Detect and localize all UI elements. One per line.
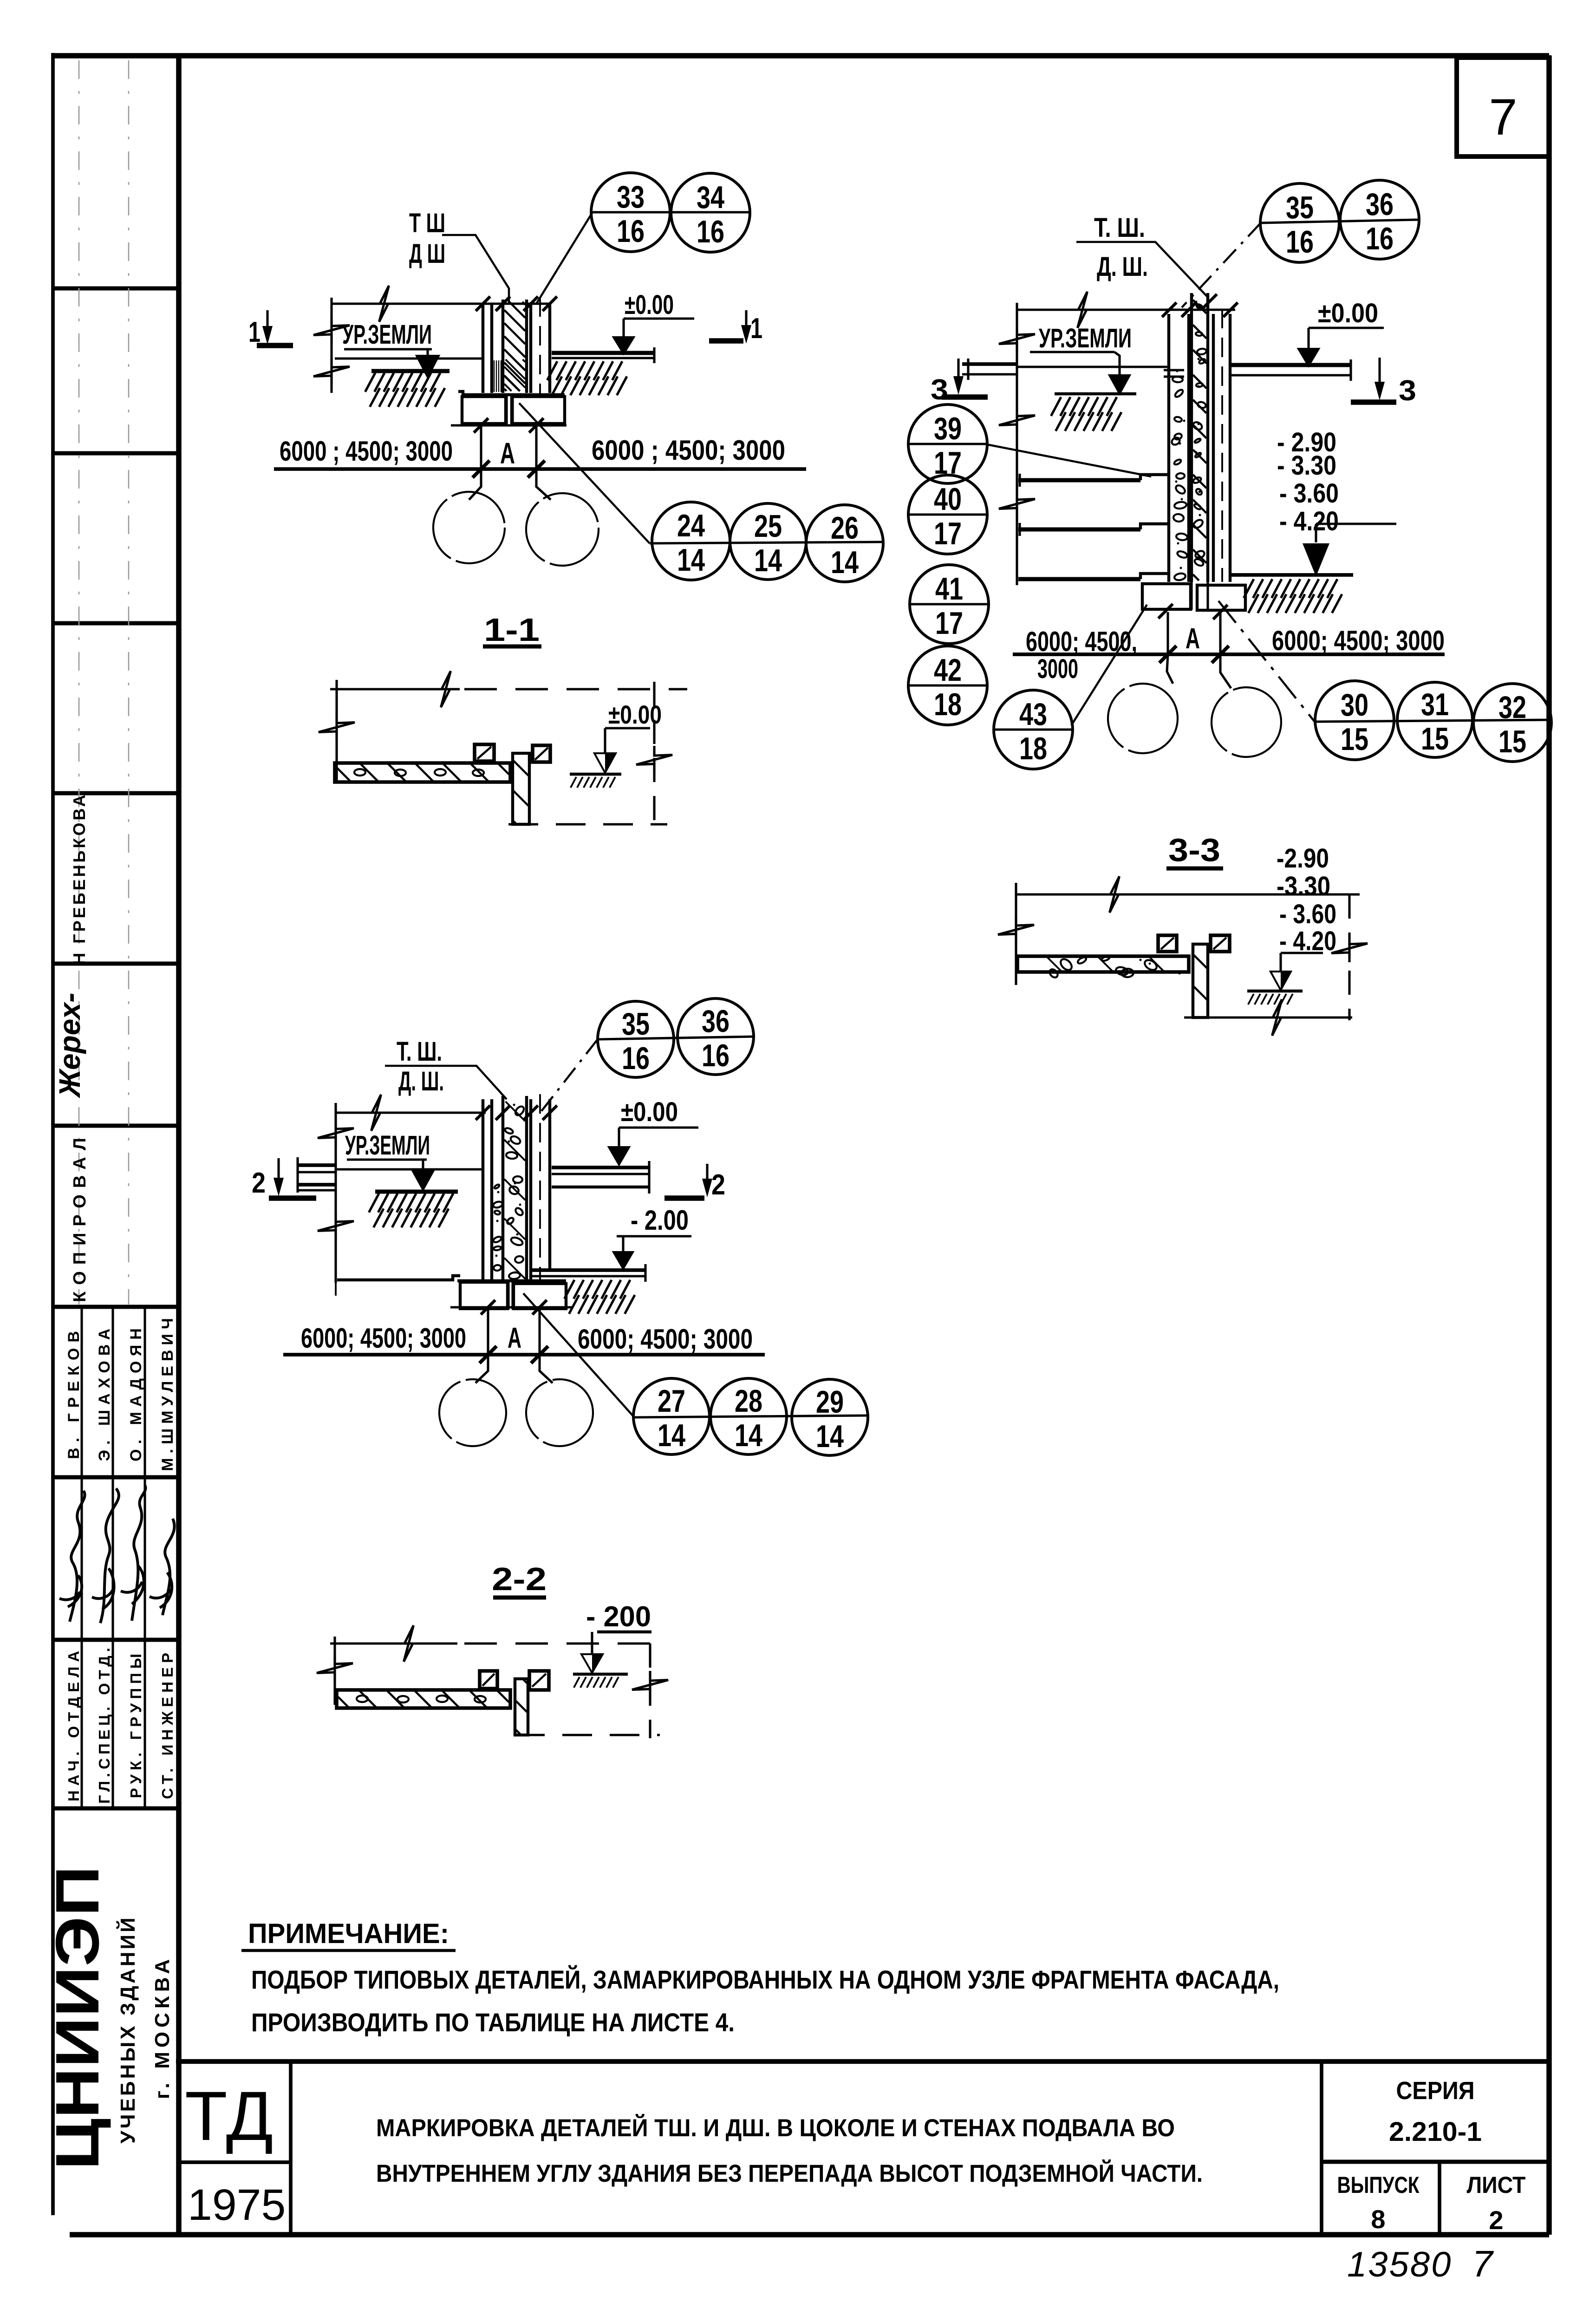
detail circle 35/16 (B): [1260, 183, 1339, 262]
svg-text:О. МАДОЯН: О. МАДОЯН: [127, 1323, 145, 1461]
svg-text:УР.ЗЕМЛИ: УР.ЗЕМЛИ: [1039, 323, 1132, 353]
svg-text:СЕРИЯ: СЕРИЯ: [1396, 2077, 1475, 2105]
svg-text:42: 42: [934, 652, 962, 688]
detail C: left extent line: [334, 1103, 337, 1283]
stamp column divider 2: [53, 451, 179, 456]
detail circle 42/18: [909, 684, 988, 686]
svg-text:14: 14: [677, 542, 705, 578]
svg-text:г. МОСКВА: г. МОСКВА: [151, 1955, 174, 2099]
svg-text:35: 35: [622, 1006, 650, 1042]
svg-text:ЛИСТ: ЛИСТ: [1467, 2172, 1526, 2198]
svg-text:6000; 4500; 3000: 6000; 4500; 3000: [578, 1324, 753, 1355]
stamp column divider 8: [53, 1475, 179, 1480]
detail B: axis circle empty 2: [1212, 687, 1281, 757]
svg-text:- 4.20: - 4.20: [1279, 506, 1339, 536]
detail circle 31/15: [1397, 682, 1472, 757]
detail B: leader from circle 39: [987, 444, 1151, 476]
detail A: left extent line: [330, 298, 332, 393]
detail C: footing top ledge: [457, 1279, 566, 1282]
stamp column outer left line: [51, 53, 55, 2215]
series cell divider: [1320, 2061, 1323, 2235]
detail A: hooks to axis circles: [469, 469, 481, 500]
detail C: footing block right: [514, 1284, 566, 1309]
svg-text:3000: 3000: [1037, 654, 1078, 684]
detail circle 26/14: [806, 505, 883, 582]
svg-text:3-3: 3-3: [1168, 832, 1220, 868]
svg-text:16: 16: [617, 214, 645, 249]
stamp column divider 7: [53, 1305, 179, 1309]
svg-text:16: 16: [622, 1041, 650, 1076]
detail circle 34/16: [671, 173, 750, 252]
svg-text:6000; 4500; 3000: 6000; 4500; 3000: [301, 1323, 466, 1354]
detail C: axis dimension line: [283, 1353, 765, 1357]
svg-text:ГЛ.СПЕЦ. ОТД.: ГЛ.СПЕЦ. ОТД.: [96, 1644, 113, 1804]
svg-text:Т. Ш.: Т. Ш.: [397, 1037, 442, 1067]
detail C: bottom floor line left: [337, 1276, 460, 1280]
detail A: ticks on top dim line: [476, 296, 490, 311]
detail A: footing block right: [512, 397, 565, 424]
detail C: soil hatch under basement slab: [564, 1280, 574, 1299]
detail C: footing block left: [460, 1282, 508, 1309]
detail C: divider line through circles 27-29: [634, 1415, 868, 1417]
svg-text:- 200: - 200: [586, 1601, 651, 1633]
svg-text:35: 35: [1286, 190, 1314, 225]
svg-text:6000; 4500,: 6000; 4500,: [1026, 626, 1137, 657]
detail circle 28/14: [710, 1378, 787, 1455]
detail circle 43/18: [994, 728, 1073, 731]
detail B: lower ground line right: [1231, 573, 1353, 577]
detail circle 24/14: [652, 502, 730, 580]
section 2-2: joint insert left: [480, 1671, 497, 1689]
stamp column divider 1: [53, 287, 179, 291]
svg-text:24: 24: [677, 508, 705, 543]
stamp sub-column dividers: [80, 1307, 83, 1808]
border frame bottom line: [70, 2232, 1549, 2237]
detail B: left extent line: [1016, 303, 1018, 585]
detail B: expansion joint panel hatched: [1190, 293, 1193, 582]
detail A: footing top ledge: [458, 391, 565, 395]
detail C: section mark 2 right: [664, 1195, 704, 1201]
detail C: ground line left: [336, 1168, 483, 1170]
svg-text:14: 14: [831, 545, 859, 580]
svg-text:15: 15: [1421, 721, 1449, 757]
detail B: floor slab right: [1231, 363, 1351, 367]
detail circle 29/14: [792, 1379, 868, 1455]
svg-text:6000 ; 4500; 3000: 6000 ; 4500; 3000: [280, 436, 453, 467]
detail A: floor slab right: [552, 351, 654, 355]
detail C: leader from circle 35: [537, 1039, 598, 1116]
detail circle 41/17: [910, 603, 989, 605]
svg-text:ТД: ТД: [185, 2077, 274, 2155]
svg-text:8: 8: [1371, 2205, 1385, 2234]
svg-text:Д Ш: Д Ш: [409, 239, 445, 269]
svg-text:18: 18: [1019, 731, 1047, 766]
detail C: floor slab right: [552, 1166, 649, 1169]
svg-text:УР.ЗЕМЛИ: УР.ЗЕМЛИ: [345, 1130, 430, 1161]
svg-text:16: 16: [1286, 224, 1314, 260]
section 3-3: perpendicular wall strip: [1193, 944, 1208, 1018]
stamp column divider 4: [53, 791, 179, 796]
detail C: footing measure line: [450, 1306, 572, 1308]
svg-text:2-2: 2-2: [492, 1561, 547, 1597]
svg-text:-3.30: -3.30: [1277, 871, 1330, 901]
svg-text:А: А: [508, 1322, 521, 1354]
detail B: divider line through circles 35-36: [1261, 220, 1419, 223]
detail B: soil hatch lower right: [1244, 579, 1254, 598]
detail circle 40/17: [909, 513, 988, 515]
svg-text:ВНУТРЕННЕМ УГЛУ ЗДАНИЯ БЕЗ: ВНУТРЕННЕМ УГЛУ ЗДАНИЯ БЕЗ ПЕРЕПАДА ВЫСО…: [376, 2159, 1203, 2187]
svg-text:43: 43: [1019, 697, 1047, 732]
svg-text:15: 15: [1341, 722, 1368, 757]
detail circle 33/16: [591, 173, 670, 252]
detail B: wall top edge ticks: [1162, 302, 1176, 317]
svg-text:А: А: [500, 437, 515, 470]
section 3-3: left end line: [1015, 883, 1017, 985]
detail B: basement floor slab variant 3: [1018, 577, 1140, 581]
detail B: footing block right: [1197, 585, 1245, 610]
svg-text:±0.00: ±0.00: [621, 1097, 678, 1127]
svg-text:28: 28: [735, 1383, 762, 1419]
section 1-1: right break line: [653, 682, 655, 831]
svg-text:СТ. ИНЖЕНЕР: СТ. ИНЖЕНЕР: [159, 1649, 176, 1799]
detail C: inner wall face with axis dash: [529, 1099, 532, 1281]
detail A: axis extension lines: [480, 425, 482, 469]
svg-text:2: 2: [1489, 2205, 1503, 2235]
detail circle 27/14: [633, 1378, 710, 1455]
stamp column divider 5: [53, 962, 179, 966]
section 1-1: left end line: [335, 680, 338, 782]
svg-text:- 2.00: - 2.00: [631, 1205, 689, 1236]
svg-text:14: 14: [754, 543, 782, 578]
svg-text:17: 17: [935, 606, 963, 641]
svg-text:6000 ; 4500; 3000: 6000 ; 4500; 3000: [592, 435, 785, 466]
border frame right line: [1546, 56, 1552, 2235]
detail A: footing measure line: [451, 424, 567, 426]
stamp column fold mark lines: [78, 60, 80, 1305]
section 3-3: ground line: [1247, 990, 1303, 992]
svg-text:КОПИРОВАЛ: КОПИРОВАЛ: [70, 1131, 90, 1302]
detail C: axis extension lines: [487, 1309, 489, 1355]
svg-text:36: 36: [702, 1004, 730, 1039]
svg-text:±0.00: ±0.00: [625, 290, 674, 320]
detail circle 30/15: [1315, 681, 1394, 760]
detail B: basement floor slab variant 2: [1018, 528, 1140, 532]
border frame top line: [53, 53, 1549, 59]
section 2-2: bottom dashed line: [515, 1734, 660, 1736]
svg-text:25: 25: [754, 509, 782, 544]
detail B: inner wall face with axis dash line: [1212, 314, 1215, 582]
detail A: label leader: [442, 235, 509, 304]
svg-text:1: 1: [750, 313, 762, 345]
stamp column divider 10: [53, 1807, 179, 1811]
detail A: inner wall face with axis dashes: [529, 304, 532, 393]
detail B: basement floor slab variant 1: [1018, 478, 1140, 483]
svg-text:14: 14: [735, 1418, 762, 1453]
section 1-1: perpendicular wall strip: [513, 753, 529, 824]
svg-text:40: 40: [934, 482, 962, 517]
detail B: leader from circle 43 to footing: [1071, 605, 1147, 725]
svg-text:ПРОИЗВОДИТЬ ПО ТАБЛИЦЕ НА ЛИ: ПРОИЗВОДИТЬ ПО ТАБЛИЦЕ НА ЛИСТЕ 4.: [251, 2008, 735, 2037]
svg-text:РУК. ГРУППЫ: РУК. ГРУППЫ: [127, 1650, 144, 1798]
svg-text:Н ГРЕБЕНЬКОВА: Н ГРЕБЕНЬКОВА: [70, 792, 89, 965]
svg-text:32: 32: [1498, 690, 1526, 725]
detail circle 35/16 (C): [598, 1001, 674, 1077]
sheet number box: [1457, 58, 1549, 157]
detail A: divider line through circles 33-34: [593, 211, 749, 213]
svg-text:ЦНИИЭП: ЦНИИЭП: [43, 1866, 111, 2170]
section 3-3: joint insert right: [1211, 935, 1230, 952]
detail circle 25/14: [730, 503, 806, 580]
section 3-3: bottom line: [1184, 1016, 1352, 1018]
detail A: expansion joint panel (hatched): [502, 300, 504, 393]
stamp column divider 9: [53, 1638, 179, 1642]
detail circle 36/16 (C): [677, 998, 754, 1075]
detail B: hooks to axis circles: [1167, 654, 1173, 684]
detail B: soil line and hatch left: [1055, 392, 1136, 395]
detail A: footing block left: [462, 397, 506, 424]
section 2-2: wall panel (hatched): [337, 1690, 510, 1708]
svg-text:- 4.20: - 4.20: [1279, 926, 1336, 956]
stamp column divider 3: [53, 621, 179, 626]
detail C: hooks to axis circles: [476, 1355, 488, 1383]
section 2-2: joint insert right: [529, 1671, 549, 1690]
svg-text:-2.90: -2.90: [1277, 843, 1329, 874]
svg-text:Д. Ш.: Д. Ш.: [1097, 252, 1148, 282]
section 2-2: perpendicular wall strip: [515, 1679, 528, 1735]
detail B: top dimension line: [1017, 308, 1235, 311]
svg-text:- 3.30: - 3.30: [1277, 450, 1336, 481]
detail C: wall panel faces: [482, 1099, 484, 1281]
detail B: outer basement wall pebble fill: [1173, 376, 1183, 383]
svg-text:18: 18: [934, 687, 962, 722]
detail C: top dimension line: [336, 1111, 486, 1114]
section 3-3: level mark: [1281, 952, 1323, 954]
svg-text:17: 17: [934, 516, 962, 551]
section 1-1: bottom dashed line: [508, 823, 667, 825]
svg-text:39: 39: [934, 411, 962, 446]
detail A: leader to detail circles 24-26: [519, 403, 650, 543]
svg-text:Жерех-: Жерех-: [53, 993, 86, 1099]
svg-text:1975: 1975: [188, 2180, 286, 2230]
detail B: section mark 3 right: [1378, 358, 1381, 385]
svg-text:16: 16: [1366, 221, 1394, 256]
section 1-1: joint insert right (hatched square): [533, 745, 550, 762]
detail B: joint through footing: [1190, 582, 1192, 610]
svg-text:1-1: 1-1: [484, 612, 540, 648]
detail circle 32/15: [1473, 684, 1551, 762]
svg-text:2: 2: [711, 1169, 725, 1201]
svg-text:Э. ШАХОВА: Э. ШАХОВА: [96, 1324, 113, 1461]
svg-text:А: А: [1186, 623, 1200, 655]
svg-text:3: 3: [931, 374, 948, 406]
svg-text:Т Ш: Т Ш: [409, 208, 445, 238]
svg-text:ПОДБОР ТИПОВЫХ ДЕТАЛЕЙ, ЗАМАР: ПОДБОР ТИПОВЫХ ДЕТАЛЕЙ, ЗАМАРКИРОВАННЫХ …: [251, 1965, 1279, 1994]
detail C: expansion joint panel (pebbled): [502, 1096, 504, 1281]
svg-text:Т. Ш.: Т. Ш.: [1094, 213, 1145, 243]
detail A: soil hatch right: [547, 361, 557, 380]
detail A: buried wall strip vertical hatch: [494, 360, 495, 392]
issue/sheet divider: [1438, 2162, 1441, 2235]
svg-text:16: 16: [697, 214, 724, 249]
detail B: ticks under footing: [1158, 604, 1173, 618]
detail B: label leader: [1076, 242, 1208, 297]
section 3-3: wall top line: [1016, 893, 1360, 895]
svg-text:29: 29: [816, 1384, 844, 1420]
detail A: axis dimension line: [274, 467, 806, 471]
detail C: leader to circles 27-29: [523, 1293, 634, 1417]
detail B: ground line left: [1017, 365, 1169, 368]
detail A: wall panel faces: [482, 304, 484, 393]
detail C: basement slab right: [530, 1268, 645, 1272]
svg-text:33: 33: [617, 179, 645, 215]
svg-text:3: 3: [1399, 375, 1416, 407]
svg-text:31: 31: [1421, 687, 1449, 722]
svg-text:- 3.60: - 3.60: [1279, 899, 1336, 929]
svg-text:УЧЕБНЫХ ЗДАНИЙ: УЧЕБНЫХ ЗДАНИЙ: [116, 1915, 139, 2143]
detail A: axis circle empty 1: [433, 492, 505, 563]
svg-text:15: 15: [1498, 724, 1526, 759]
detail B: wall ledge at ground: [1164, 369, 1184, 371]
section 2-2: wall top line: [330, 1642, 457, 1644]
detail A: section mark 1 left: [266, 310, 268, 329]
svg-text:34: 34: [697, 180, 724, 215]
section 1-1: wall panel (hatched): [335, 763, 510, 782]
TD logo box divider lines: [289, 2061, 293, 2235]
svg-text:М.ШМУЛЕВИЧ: М.ШМУЛЕВИЧ: [159, 1313, 176, 1471]
detail C: ticks on top dim line: [476, 1105, 490, 1120]
detail A: leader from circle 33 to joint: [536, 212, 593, 304]
detail C: axis circle empty 1: [439, 1379, 506, 1446]
svg-text:±0.00: ±0.00: [1318, 298, 1378, 328]
detail B: floor slab pair left of extent: [962, 362, 1018, 366]
detail B: footing block left: [1142, 584, 1191, 609]
svg-text:ПРИМЕЧАНИЕ:: ПРИМЕЧАНИЕ:: [248, 1918, 449, 1949]
svg-text:В. ГРЕКОВ: В. ГРЕКОВ: [65, 1325, 83, 1459]
detail C: label leader: [385, 1066, 507, 1099]
detail B: wall outer face: [1167, 314, 1170, 582]
detail A: divider line through circles 24-26: [650, 542, 883, 543]
svg-text:7: 7: [1489, 89, 1517, 146]
detail circle 39/17: [909, 443, 988, 445]
svg-text:14: 14: [658, 1418, 685, 1453]
section 1-1: ground line: [570, 773, 621, 776]
stamp column divider 6: [53, 1124, 179, 1128]
svg-text:16: 16: [702, 1038, 730, 1073]
svg-text:14: 14: [816, 1419, 844, 1454]
svg-text:МАРКИРОВКА ДЕТАЛЕЙ ТШ. И ДШ.: МАРКИРОВКА ДЕТАЛЕЙ ТШ. И ДШ. В ЦОКОЛЕ И …: [376, 2113, 1175, 2142]
section 3-3: joint insert left: [1158, 935, 1177, 952]
svg-text:27: 27: [658, 1383, 685, 1419]
title block top line: [176, 2059, 1549, 2064]
svg-text:36: 36: [1366, 187, 1394, 222]
detail C: divider line through circles 35-36: [598, 1037, 755, 1039]
detail A: axis circle empty 2: [526, 493, 599, 566]
section 2-2: ground line: [573, 1673, 628, 1676]
detail A: ground line left: [335, 357, 483, 359]
signature 2: [92, 1488, 119, 1623]
svg-text:2.210-1: 2.210-1: [1389, 2117, 1482, 2147]
detail B: lower level mark: [1316, 522, 1396, 525]
detail B: axis circle empty 1: [1108, 684, 1178, 753]
detail A: top dimension line: [332, 302, 550, 305]
svg-text:УР.ЗЕМЛИ: УР.ЗЕМЛИ: [342, 320, 432, 350]
detail C: joint through footing: [507, 1281, 509, 1310]
detail B: divider line through circles 30-32: [1315, 720, 1551, 722]
signature 3: [121, 1485, 146, 1621]
detail A: ground level arrow: [426, 349, 429, 356]
section 3-3: wall panel (pebble fill): [1017, 956, 1189, 972]
detail circle 36/16 (B): [1340, 180, 1419, 259]
section 2-2: level mark: [591, 1632, 593, 1654]
detail C: axis circle empty 2: [526, 1379, 593, 1446]
drawing area left frame line: [176, 56, 182, 2235]
svg-text:2: 2: [252, 1167, 266, 1199]
svg-text:ВЫПУСК: ВЫПУСК: [1337, 2172, 1420, 2198]
signature 1: [59, 1491, 85, 1622]
detail C: outer slab pair left: [297, 1163, 337, 1167]
series row divider: [1322, 2160, 1549, 2164]
detail B: leader from circle 35: [1182, 223, 1261, 307]
detail A: joint through footing: [505, 394, 508, 425]
svg-text:7: 7: [1472, 2243, 1494, 2284]
detail B: leader to circles 30-32: [1218, 601, 1315, 722]
svg-text:41: 41: [935, 571, 963, 607]
svg-text:НАЧ. ОТДЕЛА: НАЧ. ОТДЕЛА: [65, 1646, 82, 1801]
detail A: section mark 1 right: [709, 338, 743, 344]
section 1-1: wall top line: [330, 688, 457, 690]
svg-text:Д. Ш.: Д. Ш.: [398, 1066, 444, 1096]
svg-text:26: 26: [831, 510, 859, 546]
section 3-3: right break line: [1348, 894, 1350, 1020]
svg-text:30: 30: [1341, 687, 1368, 723]
detail C: soil hatch left: [375, 1190, 458, 1194]
svg-text:13580: 13580: [1347, 2245, 1452, 2284]
detail B: axis extension lines: [1166, 612, 1169, 654]
section 2-2: left end line: [333, 1637, 336, 1705]
detail A: soil hatch left: [371, 369, 449, 373]
signature 4: [150, 1519, 175, 1615]
detail B: axis dimension line: [1013, 652, 1445, 656]
section 2-2: right break line: [649, 1644, 651, 1738]
section 1-1: joint insert left (hatched square): [475, 744, 494, 761]
svg-text:- 3.60: - 3.60: [1279, 478, 1339, 509]
svg-text:6000; 4500; 3000: 6000; 4500; 3000: [1272, 625, 1445, 656]
